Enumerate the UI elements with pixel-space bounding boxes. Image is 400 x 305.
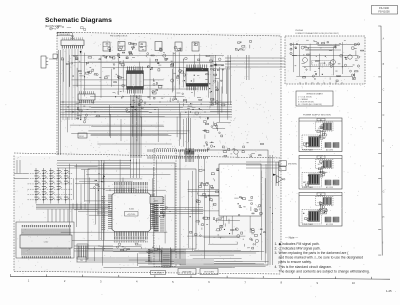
wires under tuner into main [130,159,132,179]
keyboard to lcd wires [47,209,49,222]
mid horizontal bus wires [60,101,232,103]
IC401 right label column dark [154,197,159,198]
svg-text:The design and contents are su: The design and contents are subject to c… [279,269,370,273]
svg-text:1.: 1. [275,242,278,246]
IC101 peripheral parts left [118,76,120,78]
inner solid enclosure digital [104,163,176,251]
connector DH401 [77,257,86,262]
key switch matrix S401-S427 [35,173,36,174]
svg-text:IC401: IC401 [129,209,135,211]
IF transformer T106 [192,42,199,51]
tuner board lower wiring mesh [91,106,183,108]
IC201 peripheral parts left [183,59,185,61]
front-end coil T101 [103,42,110,51]
headphone board left terminals [290,43,292,45]
svg-text:C : CANADA: C : CANADA [298,98,309,101]
bottom left tick comb [148,250,150,261]
svg-text:uPD75316: uPD75316 [127,214,135,216]
svg-text:FM 2.5MW DECK: FM 2.5MW DECK [110,36,128,38]
X401 parts [162,207,164,211]
svg-text:2.: 2. [275,246,278,250]
IC401 bottom label rows [113,236,116,239]
svg-text:FS-V1000: FS-V1000 [378,11,390,14]
model number box FS-V100/FS-V1000 top right [372,6,398,15]
analog blank sub-board [219,164,261,216]
wires from CN101 down [62,49,64,120]
IC102 lower parts [77,115,82,117]
AF amp cluster 2 [202,194,205,196]
AF amp cluster 3 [251,197,253,199]
headphone board parts row 1 [354,47,357,50]
svg-text:VERSION CHART: VERSION CHART [306,93,323,96]
front-end coil T103 [139,42,146,51]
IC401 below parts [140,247,142,249]
right margin zone ruler line [381,26,382,256]
left vertical bus wires [58,50,60,155]
svg-text:10: 10 [352,281,355,285]
headphone board wiring [305,49,333,51]
bus label ticks row 2 [148,156,207,159]
svg-text:(For FS-V100): (For FS-V100) [45,24,62,28]
arrow on ribbon [189,150,191,153]
board name label box 3 [200,269,218,275]
IF IC IC101 [127,74,144,87]
svg-text:G: G [383,191,385,193]
board name label box 1 [151,271,166,275]
darkened safety area band [174,259,214,264]
ribbon connector CN401 [185,148,187,162]
LCD top labels [22,225,23,227]
svg-text:Schematic Diagrams: Schematic Diagrams [45,17,112,24]
LCD top pin comb [22,229,70,236]
AF amp cluster 4 [190,231,192,233]
signal arrow on wire 2 [105,57,107,60]
IC201 peripheral parts below [199,108,200,109]
LCD bottom pin comb [22,248,70,256]
resistor row R111-R118 [79,75,84,77]
junction dots [62,101,63,102]
headphone board bottom pins [300,82,342,85]
analog right wires [246,161,281,163]
tuner right wiring [212,128,225,130]
main board dashed outline right edge [280,36,282,272]
signal arrow into op-amp [273,174,276,176]
svg-text:4.: 4. [275,265,278,269]
LCD bottom labels [22,256,23,258]
IC401 left label column [102,195,106,198]
front-end coil T102 [118,42,125,51]
op-amp triangle [277,176,284,184]
IC401 left pins [108,195,112,228]
power supply box 2 (C version) [299,156,342,190]
AF amp cluster 5 [243,238,244,241]
svg-text:POWER SUPPLY SECTION: POWER SUPPLY SECTION [303,115,331,117]
crystal X101 box [78,133,87,138]
svg-text:This is the standard circuit d: This is the standard circuit diagram. [279,265,333,269]
headphone board top bus [290,44,360,46]
left entry box [53,54,58,59]
front-end coil T104 [155,42,162,51]
svg-text:1-25: 1-25 [386,289,392,293]
IC401 top pins [115,189,148,194]
antenna input parts [79,60,81,63]
keyboard matrix wiring [28,172,74,174]
headphone board right terminals [357,43,359,45]
coupling parts top right [242,46,245,48]
analog vertical bus [269,155,271,265]
transistor Q903 [348,55,352,59]
bus label ticks row 1 [148,149,207,152]
CN403 left pin lines [148,249,162,251]
wires to headphone board [225,57,285,59]
IF transformer T105 [175,42,182,51]
tuning capacitor VC1 [129,52,132,53]
power supply box 1 (U version) [299,118,342,152]
svg-text:CF101: CF101 [79,136,84,138]
wires main top area [57,160,130,162]
bottom margin ruler line [10,276,390,279]
keyboard area wiring [81,168,90,170]
discrete cluster Q201 area [204,130,206,132]
AF amp cluster 1 [211,185,213,187]
tuner board label box [58,33,73,36]
connector CN101 [61,40,84,46]
headphone board parts row 2 [302,63,305,65]
svg-text:(PHONES): (PHONES) [288,164,297,166]
main board lower wiring [145,260,268,262]
tuner board area shading [57,33,281,156]
svg-text:3.: 3. [275,251,278,255]
IC201 peripheral parts right [214,80,216,82]
system controller IC401 [112,193,151,232]
IC401 right label column 2 [160,196,164,199]
headphone board inner label box [312,61,334,66]
crystal X401 [150,197,163,204]
front-end parts row [151,54,154,57]
IC201 signal arrow [213,64,216,66]
version chart box [296,91,333,106]
svg-text:EX: OTHERS (ALL OF ABOVE): EX: OTHERS (ALL OF ABOVE) [298,103,322,106]
svg-text:X401: X401 [154,201,158,203]
text row above border [55,28,56,31]
bottom margin ruler ticks [10,274,12,276]
antenna coil symbol [71,36,74,40]
IC401 right pins [151,195,155,228]
transistor Q301 [234,150,238,154]
main board digital wiring mesh [100,245,141,247]
board separator dashed line [14,153,281,158]
headphone board area shading [285,36,365,84]
svg-text:LCD: LCD [44,242,49,244]
tuner-to-main vertical bus [130,95,132,158]
IC401 top label rows [113,182,116,185]
signal arrow on wire 3 [207,118,209,121]
headphone board dashed outline [285,36,365,84]
signal arrow on wire [80,51,82,54]
LCD outer frame [16,222,74,258]
svg-text:— Note —: — Note — [285,235,298,239]
IC401 left parts [98,190,99,191]
svg-text:CN-850A: CN-850A [295,29,304,32]
digital vertical bus left [98,160,100,240]
svg-text:CONNECTION ANALYZER S-CBL (FS-: CONNECTION ANALYZER S-CBL (FS-V100 ONLY) [295,32,339,35]
svg-text:U : U.S.A. MODEL: U : U.S.A. MODEL [298,95,312,98]
keyboard bottom bus [36,204,110,206]
tuner board dashed outline left edge [56,32,58,155]
vertical ribbon connector CN403 [161,248,163,268]
headphone board parts row 3 [354,71,358,72]
svg-text:parts to ensure safety.: parts to ensure safety. [279,260,312,264]
CN403 right pin lines [171,249,187,251]
IC101 peripheral parts below [135,106,137,108]
discrete cluster Q202 area [210,145,212,147]
mid vertical wire pair [186,118,188,150]
IC101 peripheral parts right [153,80,154,81]
external antenna jack [41,56,46,68]
svg-text:and those marked with ⚠, be su: and those marked with ⚠, be sure to use … [279,256,364,260]
phones jack J1 [279,161,287,166]
main board analog wiring mesh [194,249,241,251]
analog top cluster [233,149,235,150]
IC201 right vertical wires [210,55,212,105]
board name label box 2 [178,269,196,275]
svg-text:When replacing the parts in th: When replacing the parts in the darkened… [279,251,350,255]
inner solid enclosure analog [180,150,268,265]
IC401 bottom pins [115,232,148,237]
svg-text:FS-V100: FS-V100 [379,7,389,10]
stereo decoder IC IC201 [186,71,208,84]
power supply box 3 (E version) [299,193,342,227]
svg-text:◆ indicates FM signal path.: ◆ indicates FM signal path. [279,242,320,246]
sub IC IC102 [78,94,95,100]
main board area shading [14,156,281,272]
main board dashed outline bottom edge [14,271,281,274]
deck sub-board dashed outline [154,149,176,267]
transistor Q901 [303,58,308,63]
main board dashed outline left edge [13,156,15,272]
horizontal bus to analog [160,207,203,209]
LCD side connector [77,244,88,259]
tuner board wiring mesh [71,79,163,81]
transistor Q902 [331,60,336,65]
keyboard left wires [14,172,28,174]
inner solid enclosure digital outer [88,169,196,249]
LCD glass [20,235,72,248]
wire junction dots extra [98,173,99,174]
svg-text:◇ indicates MW signal path.: ◇ indicates MW signal path. [279,246,321,250]
bottom wire runs [86,257,152,259]
tuner board dashed outline top edge [57,32,281,36]
